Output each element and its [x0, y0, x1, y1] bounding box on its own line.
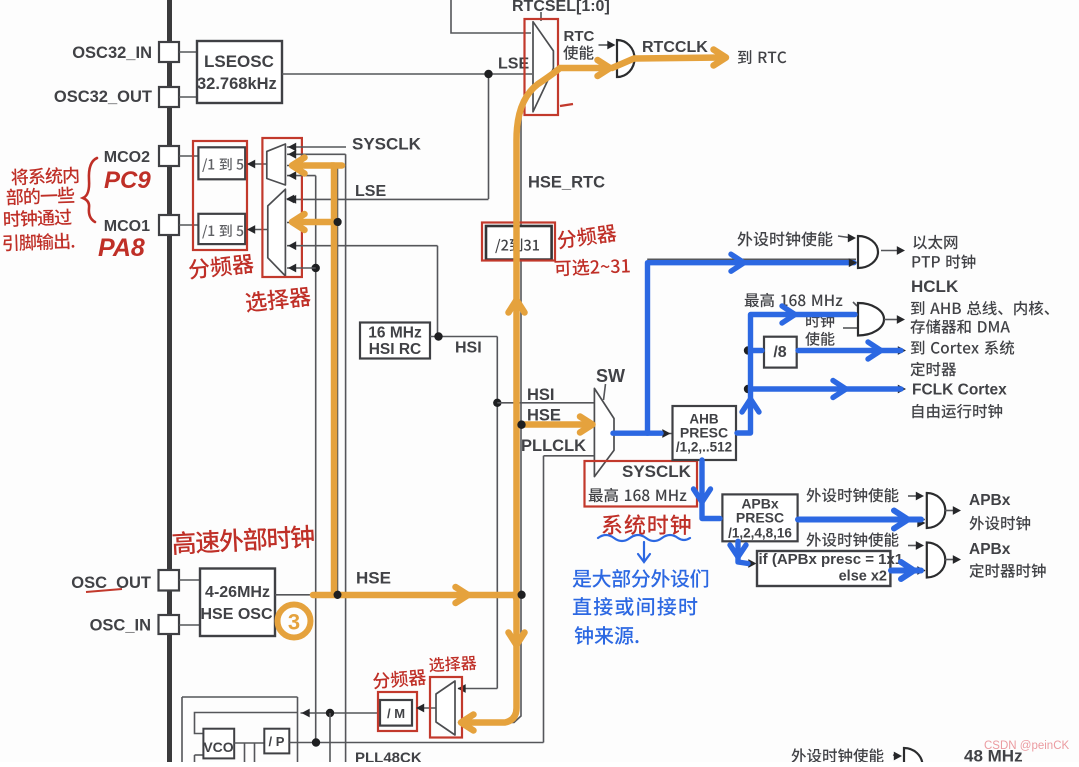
- red note 分频器 (MCO dividers): [188, 253, 254, 280]
- blue arrowhead Cortex timer: [868, 342, 881, 359]
- orange arrowhead up HSE_RTC: [509, 300, 525, 313]
- junction HSE/MCO1 (over orange): [334, 218, 342, 226]
- svg-text:HSI: HSI: [527, 386, 555, 404]
- wire HSE output: [275, 594, 522, 596]
- blue highlight SYSCLK to AHB prescaler: [613, 431, 661, 436]
- orange arrowhead into RTC gate: [598, 60, 611, 76]
- mux MCO1 source select: [268, 189, 286, 276]
- wire PLLCLK from /P output up into SW mux: [543, 456, 545, 743]
- blue note 直接或间接时: [573, 597, 697, 616]
- svg-text:32.768kHz: 32.768kHz: [197, 75, 277, 93]
- svg-text:RTCCLK: RTCCLK: [642, 39, 708, 56]
- select tick RTCSEL: [540, 12, 542, 21]
- wire HSE vertical branch up to MCO muxes: [337, 166, 339, 595]
- wire ethernet gate output: [881, 250, 900, 252]
- svg-text:APBx: APBx: [969, 541, 1011, 558]
- label 外设时钟使能 (ethernet): [738, 231, 833, 246]
- PLL block outline: [182, 696, 298, 698]
- junction /M line to PLLI2S: [326, 709, 334, 717]
- red note 引脚输出: [3, 232, 75, 251]
- svg-text:OSC32_IN: OSC32_IN: [72, 44, 152, 62]
- svg-text:PLLCLK: PLLCLK: [521, 437, 586, 455]
- label 到 RTC: [738, 50, 786, 64]
- prescaler APBx PRESC /1,2,4,8,16: [722, 494, 797, 541]
- wire HSI into SW mux: [497, 402, 594, 404]
- wire HSE_RTC vertical through divider to RTCSEL mux: [520, 425, 522, 595]
- svg-text:LSEOSC: LSEOSC: [204, 52, 274, 71]
- svg-text:3: 3: [288, 610, 300, 635]
- svg-text:PRESC: PRESC: [736, 510, 784, 526]
- red annotation box around /M: [378, 692, 417, 731]
- svg-text:4-26MHz: 4-26MHz: [205, 584, 270, 601]
- svg-text:APBx: APBx: [969, 492, 1011, 509]
- junction HSE / RTC-PLL branch: [517, 591, 525, 599]
- arrowhead timer clock into gate: [917, 566, 925, 575]
- red annotation box around /2到31: [482, 223, 555, 261]
- wire if-box output to timer gate (under blue): [890, 570, 925, 572]
- svg-text:16 MHz: 16 MHz: [368, 325, 422, 342]
- arrowhead into if box: [748, 559, 756, 568]
- wire /8 output to Cortex timer: [797, 350, 901, 352]
- wire PLL into MCO1 mux: [287, 267, 316, 269]
- oscillator LSEOSC 32.768kHz: [197, 41, 282, 103]
- label 外设时钟使能 (48MHz, clipped): [791, 748, 883, 762]
- wire /8 input: [751, 350, 765, 352]
- orange highlight HSE down to PLL source mux: [463, 595, 517, 723]
- label 外设时钟使能 (APBx timer): [806, 532, 898, 546]
- wire RTC enable into gate: [599, 44, 612, 46]
- label 时钟 (enable): [806, 314, 834, 328]
- red annotation box around MCO dividers: [193, 141, 247, 250]
- blue arrowhead ethernet: [731, 254, 744, 271]
- red annotation box around RTCSEL mux: [525, 19, 559, 115]
- svg-text:OSC_IN: OSC_IN: [90, 617, 151, 635]
- svg-text:SW: SW: [596, 366, 625, 386]
- wire SYSCLK riser to ethernet PTP gate (under blue): [648, 259, 856, 433]
- red note 选择器 (MCO muxes): [245, 286, 311, 313]
- red note 部的一些: [6, 186, 74, 205]
- blue highlight APBx presc to x2 logic: [738, 541, 748, 563]
- red note 系统时钟: [602, 514, 690, 535]
- label 以太网: [913, 235, 957, 249]
- orange highlight HSE into SW mux: [519, 421, 588, 428]
- svg-text:/ P: / P: [269, 734, 285, 749]
- blue arrowhead HCLK: [782, 306, 795, 323]
- wire OSC32_OUT to LSEOSC: [179, 96, 197, 98]
- wire HSE down to PLL source mux (under orange): [458, 595, 521, 723]
- wire APBx prescaler output (under blue): [798, 519, 925, 521]
- orange arrowhead HSE: [456, 587, 469, 603]
- svg-text:LSE: LSE: [355, 183, 386, 200]
- junction HSE/SW (over orange): [517, 421, 525, 429]
- pin OSC_IN: [159, 615, 180, 634]
- junction HSE main (over orange): [518, 591, 526, 599]
- mux RTCSEL: [533, 22, 553, 112]
- svg-text:PRESC: PRESC: [680, 425, 728, 441]
- divider /8: [764, 337, 797, 368]
- wire HSE into MCO2 mux: [287, 165, 338, 167]
- red underline annotation under OSC_OUT: [86, 589, 122, 592]
- wire FCLK Cortex: [751, 388, 902, 390]
- svg-text:CSDN @peinCK: CSDN @peinCK: [984, 740, 1070, 752]
- orange arrowhead into PLL source mux: [461, 715, 474, 731]
- junction PLL feed / MCO1 input: [312, 264, 320, 272]
- blue arrowhead APBx clock: [894, 511, 908, 529]
- wire HCLK gate output: [884, 319, 900, 321]
- red note 高速外部时钟: [172, 524, 314, 555]
- blue highlight /8 branch: [751, 348, 763, 353]
- red annotation box SYSCLK 最高 168 MHz: [585, 461, 698, 507]
- label 定时器时钟: [969, 563, 1045, 578]
- blue arrowhead up riser: [742, 399, 759, 412]
- oscillator 4-26MHz HSE OSC: [200, 569, 275, 637]
- svg-text:PLL48CK: PLL48CK: [355, 750, 422, 763]
- wire enable to 48MHz gate: [893, 755, 898, 756]
- blue arrowhead into if box: [730, 545, 746, 557]
- blue highlight APBx output: [798, 517, 921, 523]
- pin OSC_OUT: [159, 570, 180, 591]
- wire HCLK to APBx prescaler (under blue): [702, 460, 722, 519]
- wire APBx presc to x2 logic (under blue): [738, 541, 752, 563]
- blue highlight HCLK riser and to HCLK gate: [737, 315, 855, 434]
- svg-text:FCLK Cortex: FCLK Cortex: [912, 382, 1007, 399]
- and-gate APBx timer clock: [927, 543, 946, 578]
- red note 选择器 (PLL mux): [429, 655, 477, 672]
- orange arrowhead down HSE: [509, 633, 525, 646]
- divider /M: [380, 700, 412, 726]
- pin OSC32_IN: [159, 42, 179, 62]
- wire MCO2 mux output to divider: [248, 163, 267, 165]
- svg-text:SYSCLK: SYSCLK: [622, 462, 692, 481]
- blue highlight riser to ethernet gate: [648, 263, 855, 434]
- and-gate 48MHz clock (clipped): [904, 748, 923, 767]
- mux PLL source select: [436, 681, 455, 735]
- blue wavy underline under 系统时钟: [598, 535, 690, 541]
- blue arrowhead FCLK: [833, 381, 846, 398]
- svg-text:MCO2: MCO2: [104, 149, 150, 166]
- oscillator VCO: [203, 729, 234, 759]
- label 到 AHB 总线、内核、: [911, 301, 1049, 316]
- svg-text:HSI RC: HSI RC: [369, 341, 422, 358]
- wire SYSCLK into MCO2 mux: [287, 146, 346, 148]
- svg-text:HSE OSC: HSE OSC: [200, 606, 272, 623]
- wire PLL source mux output to /M: [417, 707, 436, 709]
- junction HSE vertical / MCO1 input: [333, 218, 341, 226]
- red annotation box around PLL source mux: [430, 677, 462, 738]
- wire MCO1 input LSE arrowhead drawn above: [288, 195, 296, 204]
- wire MCO2 pin: [179, 155, 199, 157]
- wire OSC_OUT pin: [179, 579, 200, 581]
- svg-text:HCLK: HCLK: [911, 277, 959, 296]
- arrowhead HSE into PLL source mux: [458, 718, 466, 727]
- red brace annotation: [83, 158, 97, 222]
- blue note 钟来源: [575, 626, 639, 645]
- wire HSE into MCO1 mux: [287, 222, 338, 224]
- blue arrowhead timer clock: [901, 562, 914, 579]
- arrow peripheral clock enable to ethernet gate: [838, 236, 849, 238]
- wire timer gate output: [945, 559, 957, 561]
- arrowhead HSI into PLL source mux: [458, 684, 466, 693]
- label PTP 时钟: [913, 254, 976, 268]
- wire enable to timer gate: [908, 545, 920, 547]
- wire RTCCLK gate output: [636, 57, 700, 59]
- blue highlight FCLK: [751, 386, 902, 391]
- junction HSE/MCO (over orange): [334, 591, 342, 599]
- wire OSC32_IN to LSEOSC: [179, 51, 197, 53]
- label 外设时钟使能 (APBx peripheral): [806, 488, 898, 502]
- label 定时器: [910, 362, 956, 377]
- wire down to PLLI2S (cut off): [329, 713, 331, 762]
- junction HSI at oscillator output: [434, 332, 442, 340]
- chip boundary (left edge of MCU): [167, 0, 172, 762]
- label 存储器和 DMA: [910, 319, 1010, 333]
- pin OSC32_OUT: [159, 87, 179, 107]
- orange arrowhead HSE into SW mux: [580, 417, 593, 433]
- label 使能 (enable): [805, 332, 834, 346]
- red note 时钟通过: [4, 208, 72, 227]
- svg-text:VCO: VCO: [203, 739, 233, 755]
- wire RTCSEL top input: [451, 0, 531, 33]
- svg-text:/8: /8: [773, 344, 786, 361]
- svg-text:SYSCLK: SYSCLK: [352, 135, 422, 154]
- select tick SW: [604, 384, 606, 400]
- svg-text:HSE_RTC: HSE_RTC: [528, 174, 605, 192]
- wire clock-enable to HCLK gate: [843, 327, 857, 329]
- blue arrowhead down to APBx: [694, 489, 711, 502]
- label 到 Cortex 系统: [911, 340, 1014, 354]
- wire MCO1 mux output to divider: [248, 229, 268, 231]
- wire HSI net from HSI RC to SW mux and PLL mux: [430, 336, 497, 338]
- svg-text:HSI: HSI: [455, 340, 482, 357]
- and-gate APBx peripheral clock: [927, 493, 946, 528]
- junction HSE / MCO branch: [333, 591, 341, 599]
- wire HSI into MCO1 mux via vertical x=437: [287, 245, 438, 247]
- red note 分频器 (/2到31): [556, 223, 617, 250]
- blue down arrow annotation: [643, 542, 645, 560]
- red note 分频器 (/M): [372, 668, 426, 689]
- label 使能 (RTC enable): [563, 45, 593, 59]
- red dash annotation: [560, 104, 573, 106]
- svg-text:MCO1: MCO1: [104, 218, 150, 235]
- svg-text:if (APBx presc = 1x1: if (APBx presc = 1x1: [759, 551, 904, 568]
- wire /M output into PLL block to VCO: [301, 712, 379, 714]
- mux MCO2 source select: [267, 144, 286, 185]
- divider /P: [264, 729, 289, 754]
- pin MCO2: [159, 146, 179, 166]
- label 自由运行时钟: [912, 404, 1002, 419]
- svg-text:HSE: HSE: [356, 569, 391, 588]
- blue highlight if-box output: [891, 568, 921, 574]
- junction HCLK / FCLK: [744, 385, 752, 393]
- wire /P output (PLLCLK) to SW mux riser: [289, 742, 543, 744]
- mux SW system clock select: [594, 388, 614, 476]
- svg-text:/1,2,..512: /1,2,..512: [676, 440, 732, 455]
- tick HCLK gate top input: [853, 302, 857, 306]
- wire HSE branch into SW mux: [517, 421, 525, 429]
- wire enable to APBx gate: [908, 495, 920, 497]
- prescaler AHB PRESC /1,2,..512: [673, 406, 737, 460]
- svg-text:PC9: PC9: [104, 167, 151, 194]
- arrowhead SYSCLK into ethernet gate (over blue): [849, 258, 857, 267]
- wire PLLI2S feed into MCO2 mux (vertical to bottom): [287, 153, 346, 155]
- svg-text:/1,2,4,8,16: /1,2,4,8,16: [728, 526, 792, 541]
- blue note 是大部分外设们: [573, 569, 709, 588]
- svg-text:PA8: PA8: [98, 234, 145, 262]
- arrowhead LSE into MCO1 mux: [286, 195, 294, 204]
- wire SYSCLK to AHB prescaler (under blue): [614, 433, 672, 435]
- junction /P output / MCO PLL feed: [312, 738, 320, 746]
- red annotation box around MCO muxes: [262, 138, 302, 277]
- orange highlight HSE to MCO muxes: [334, 166, 342, 593]
- divider /2到31 (HSE RTC prescaler): [486, 226, 552, 260]
- arrowhead APBx clock into gate: [917, 519, 925, 528]
- label 最高 168 MHz (SYSCLK): [589, 488, 687, 502]
- orange arrowhead into MCO2 mux: [292, 158, 305, 174]
- junction HSI branch: [493, 399, 501, 407]
- wire LSE net: LSEOSC output to RTCSEL mux with branch down to MCO mux: [282, 73, 532, 75]
- wire MCO1 pin: [179, 224, 198, 226]
- svg-text:OSC32_OUT: OSC32_OUT: [54, 88, 152, 106]
- and-gate HCLK enable: [858, 303, 884, 336]
- wire PLL feed into MCO2/MCO1 muxes (vertical to /P output): [287, 175, 316, 177]
- wire HSI into PLL source mux: [458, 688, 497, 690]
- orange highlight HSE main line: [313, 592, 513, 599]
- and-gate ethernet PTP clock enable: [858, 236, 878, 268]
- divider /1到5 (MCO1 prescaler): [198, 214, 245, 244]
- label 最高 168 MHz (HCLK): [745, 293, 843, 307]
- svg-text:RTCSEL[1:0]: RTCSEL[1:0]: [512, 0, 610, 15]
- logic box if APBx presc = 1x1 else x2: [757, 551, 890, 586]
- wire VCO output to /P with feedback taps: [234, 742, 264, 744]
- orange circled 3 annotation: [278, 605, 311, 638]
- wire OSC_IN pin: [179, 624, 200, 626]
- label 外设时钟: [969, 516, 1030, 530]
- orange arrowhead RTCCLK: [714, 50, 727, 66]
- junction LSE: [484, 70, 492, 78]
- svg-text:else x2: else x2: [839, 569, 887, 585]
- wire VCO feedback input: [195, 754, 204, 756]
- red note 可选2~31: [554, 257, 629, 276]
- orange arrowhead into MCO1 mux: [292, 214, 305, 230]
- red note 将系统内: [11, 166, 79, 185]
- oscillator 16 MHz HSI RC: [360, 323, 430, 359]
- pin MCO1: [159, 215, 179, 235]
- orange highlight HSE up through /2到31 to RTCSEL and RTC: [517, 68, 608, 594]
- blue highlight HCLK down to APBx prescaler: [702, 460, 720, 519]
- wire HCLK riser from AHB prescaler (under blue): [736, 313, 858, 433]
- wire APBx gate output: [945, 510, 957, 512]
- divider /1到5 (MCO2 prescaler): [198, 147, 245, 179]
- and-gate RTC clock enable: [617, 40, 635, 77]
- svg-text:RTC: RTC: [564, 28, 595, 45]
- junction HCLK / /8: [744, 346, 752, 354]
- svg-text:/ M: / M: [387, 706, 405, 721]
